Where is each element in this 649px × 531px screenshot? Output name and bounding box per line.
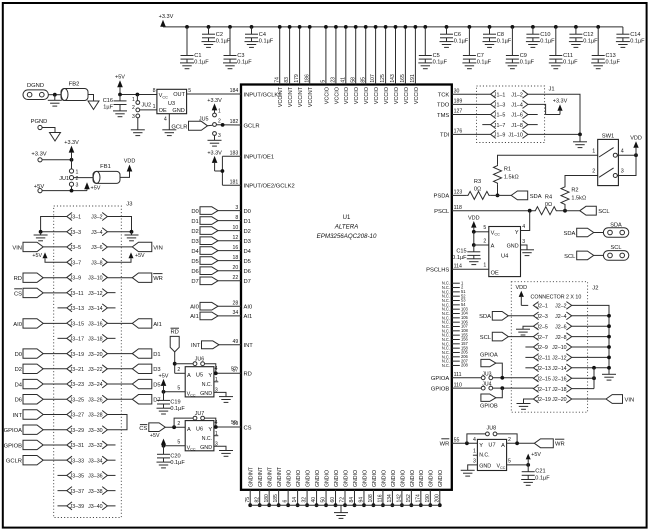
wire SW1 pin4 to VDD (617, 153, 638, 157)
svg-text:J3–34: J3–34 (88, 458, 102, 464)
pin 206 N.C. (442, 354, 469, 359)
svg-text:D7: D7 (191, 279, 198, 285)
svg-text:J2–5: J2–5 (536, 324, 548, 330)
test point +3.3V (31, 152, 46, 162)
svg-text:ALTERA: ALTERA (334, 224, 359, 231)
connector J2 row J2-11/J2-12 (533, 354, 571, 362)
svg-text:123: 123 (454, 190, 463, 196)
resistor R4 0ohm (534, 195, 558, 215)
svg-text:J3–5: J3–5 (70, 245, 82, 251)
signal tag D0 J3-19 (15, 349, 67, 358)
svg-text:J1–8: J1–8 (511, 123, 523, 129)
pin 184 INPUT/GCLK1 label (230, 88, 282, 98)
svg-text:2: 2 (483, 238, 486, 244)
svg-text:N.C.: N.C. (479, 452, 489, 458)
svg-text:12: 12 (233, 235, 239, 241)
svg-text:176: 176 (454, 129, 463, 135)
svg-text:J3: J3 (126, 202, 132, 208)
pin 189 TDO label (437, 99, 462, 109)
svg-text:72: 72 (340, 497, 346, 503)
signal tag SCL tp (564, 251, 594, 260)
svg-text:8: 8 (153, 88, 156, 94)
svg-text:40: 40 (311, 497, 317, 503)
svg-text:2: 2 (508, 437, 511, 443)
wire JU6 right (205, 364, 216, 374)
signal tag CS J3-11 (14, 288, 67, 297)
pin 55 WR label (440, 438, 460, 448)
pin VCCIO 23 (331, 25, 341, 104)
capacitor C6 0.1uF (440, 25, 469, 47)
node +3.3V arrow JU5 (207, 98, 222, 113)
signal tag GPIOB (480, 394, 498, 409)
svg-text:OUT: OUT (173, 92, 185, 98)
svg-text:0.1µF: 0.1µF (259, 38, 274, 44)
svg-text:AI0: AI0 (13, 322, 22, 328)
svg-text:VIN: VIN (12, 245, 22, 251)
signal tag SCL J2-7 (480, 332, 534, 341)
svg-text:D0: D0 (15, 352, 22, 358)
svg-text:INT: INT (191, 343, 201, 349)
pin 6 GNDIO (283, 470, 293, 507)
wire J1-7 stub (482, 124, 490, 126)
pin 152 GNDIO (406, 470, 416, 507)
svg-text:WR: WR (153, 276, 163, 282)
jumper JU5 (199, 109, 221, 139)
ground at J3-2/4 (125, 232, 139, 241)
svg-text:GPIOB: GPIOB (480, 403, 498, 409)
svg-text:VCCIO: VCCIO (384, 87, 390, 104)
connector J3 row J3-5/J3-6 (67, 243, 108, 251)
connector J1 row J1-5/J1-6 (491, 111, 528, 119)
connector J1 outline (477, 86, 545, 143)
svg-text:GNDIO: GNDIO (353, 470, 359, 487)
switch SW1 pole1 (599, 148, 617, 158)
svg-text:2: 2 (592, 169, 595, 175)
pin 34 AI1 label (233, 310, 253, 320)
wire J3-28 to J3-30 (107, 414, 127, 429)
svg-text:114: 114 (454, 264, 462, 270)
svg-text:R1: R1 (504, 167, 511, 173)
wire PGND (42, 128, 55, 133)
svg-text:C19: C19 (170, 399, 180, 405)
pin VCCINT 179 (294, 25, 304, 107)
pin 108 GNDIO (368, 470, 378, 507)
wire J2-2 down (572, 305, 609, 374)
svg-text:D2: D2 (244, 229, 251, 235)
svg-text:4: 4 (215, 366, 218, 372)
pin 51 N.C. (442, 289, 466, 294)
svg-text:PSDA: PSDA (434, 194, 450, 200)
svg-text:J3–25: J3–25 (70, 397, 84, 403)
pin VCCIO 5 (321, 25, 331, 104)
signal tag WR out (534, 439, 564, 448)
ground at C16 (113, 110, 127, 112)
connector J2 row J2-5/J2-6 (533, 322, 571, 330)
svg-text:D2: D2 (15, 367, 22, 373)
svg-text:J2–2: J2–2 (555, 304, 567, 310)
svg-text:186: 186 (304, 74, 310, 83)
svg-text:GNDIO: GNDIO (334, 470, 340, 487)
ground bus ground (334, 505, 348, 518)
svg-text:C12: C12 (583, 32, 593, 38)
svg-text:J1–6: J1–6 (511, 113, 523, 119)
signal tag GPIOA (480, 353, 498, 367)
svg-text:110: 110 (454, 382, 462, 388)
svg-text:VCCINT: VCCINT (288, 86, 294, 107)
wire R3 to SDA tag (491, 194, 511, 196)
capacitor C16 1uF (103, 95, 127, 111)
svg-text:3: 3 (76, 183, 79, 189)
jumper JU7 (193, 411, 204, 420)
svg-text:34: 34 (233, 310, 239, 316)
svg-text:111: 111 (454, 372, 462, 378)
wire DGND to FB2 (48, 93, 61, 97)
signal tag D2 (191, 227, 241, 235)
pin 14 GNDIO (292, 470, 302, 507)
svg-text:4: 4 (473, 437, 476, 443)
wire WR pin55 (452, 441, 478, 445)
svg-text:0.1µF: 0.1µF (520, 60, 535, 66)
svg-text:J3–14: J3–14 (88, 306, 102, 312)
node VDD arrow FB1 (124, 158, 136, 171)
svg-text:VCCINT: VCCINT (298, 86, 304, 107)
svg-text:0.1µF: 0.1µF (563, 60, 578, 66)
svg-text:J2–15: J2–15 (536, 376, 550, 382)
svg-text:0.1µF: 0.1µF (237, 60, 252, 66)
svg-text:AI1: AI1 (153, 322, 162, 328)
wire OE1/OE2 join (221, 156, 242, 185)
svg-text:TCK: TCK (438, 93, 450, 99)
svg-text:182: 182 (230, 119, 239, 125)
svg-text:8: 8 (235, 215, 238, 221)
node +5V arrow U7 (526, 452, 542, 465)
pin 185 GNDINT (273, 466, 283, 507)
svg-text:J2–4: J2–4 (555, 314, 567, 320)
svg-text:18: 18 (233, 255, 239, 261)
wire J3-36 stub (107, 474, 115, 476)
svg-text:GNDIO: GNDIO (400, 470, 406, 487)
buffer U7 (477, 439, 506, 470)
pin 118 PSCL label (434, 205, 462, 215)
svg-text:GPIOA: GPIOA (480, 353, 498, 359)
svg-text:D5: D5 (244, 259, 251, 265)
test point SDA (603, 222, 628, 237)
signal tag CS (139, 423, 165, 432)
svg-text:J1–7: J1–7 (494, 123, 506, 129)
svg-text:D0: D0 (191, 209, 198, 215)
svg-text:GND: GND (200, 445, 212, 451)
capacitor C10 0.1uF (526, 25, 555, 47)
wire U5 A (175, 372, 186, 374)
svg-text:3: 3 (621, 169, 624, 175)
svg-text:D1: D1 (191, 219, 198, 225)
node +3.3V supply (159, 14, 174, 27)
wire U6 Y to pin59 (214, 420, 241, 429)
svg-text:GNDIO: GNDIO (296, 470, 302, 487)
svg-text:C21: C21 (535, 468, 545, 474)
svg-text:20: 20 (233, 265, 239, 271)
svg-text:1.5kΩ: 1.5kΩ (504, 174, 519, 180)
svg-text:CS: CS (244, 425, 252, 431)
connector J3 row J3-35/J3-36 (67, 471, 108, 479)
signal tag INT J3-27 (13, 410, 67, 419)
svg-text:A: A (491, 243, 495, 249)
svg-text:GNDIO: GNDIO (429, 470, 435, 487)
ground at JU2 (131, 129, 145, 131)
svg-text:6: 6 (283, 500, 289, 503)
svg-text:OE: OE (159, 108, 167, 114)
connector J3 row J3-13/J3-14 (67, 304, 108, 312)
wire U5 Vcc (162, 390, 186, 394)
svg-text:83: 83 (284, 77, 290, 83)
wire J2-14 join (572, 366, 611, 370)
svg-text:SW1: SW1 (602, 134, 615, 140)
jumper JU1 (59, 169, 78, 189)
svg-text:R3: R3 (474, 179, 481, 185)
svg-text:C11: C11 (563, 53, 573, 59)
svg-text:60: 60 (330, 497, 336, 503)
svg-text:0.1µF: 0.1µF (606, 60, 621, 66)
pin 57 RD label (233, 368, 252, 378)
svg-text:174: 174 (415, 494, 421, 503)
svg-text:+3.3V: +3.3V (31, 152, 46, 158)
svg-text:C3: C3 (237, 53, 244, 59)
wire U4 A (474, 244, 489, 246)
svg-text:0.1µF: 0.1µF (194, 60, 209, 66)
wire U3 GND (168, 114, 170, 130)
signal tag GCLR J3-33 (6, 455, 67, 464)
buffer U6 (185, 421, 214, 452)
wire J2-19 ground (524, 399, 534, 404)
connector J2 outline (511, 282, 587, 413)
connector J3 row J3-25/J3-26 (67, 395, 108, 403)
signal tag D2 J3-21 (15, 364, 67, 373)
svg-text:+3.3V: +3.3V (159, 14, 174, 20)
svg-text:GNDIO: GNDIO (372, 470, 378, 487)
svg-text:3: 3 (218, 133, 221, 139)
svg-text:INPUT/OE1: INPUT/OE1 (244, 155, 275, 161)
node +3.3V arrow JU1 (64, 140, 79, 160)
pin VCCIO 107 (370, 25, 380, 104)
svg-text:5: 5 (177, 386, 180, 392)
wire +5V row (42, 189, 87, 193)
node +5V arrow U3 (115, 75, 125, 95)
svg-text:J2: J2 (592, 286, 598, 292)
svg-text:0.1µF: 0.1µF (477, 60, 492, 66)
svg-text:0.1µF: 0.1µF (497, 38, 512, 44)
svg-text:1: 1 (473, 448, 476, 454)
test point SCL (603, 245, 628, 260)
op-amp U1 label (317, 215, 377, 240)
svg-text:J3–26: J3–26 (88, 397, 102, 403)
signal tag RD J3-9 (14, 273, 67, 282)
svg-text:22: 22 (233, 275, 239, 281)
svg-text:GND: GND (172, 108, 184, 114)
wire JU1 pin2 to FB1 (74, 177, 93, 179)
ferrite bead FB2 (61, 81, 88, 100)
signal tag D5 J3-24 (107, 379, 160, 388)
capacitor C15 0.1uF (452, 245, 480, 261)
svg-text:GNDIO: GNDIO (410, 470, 416, 487)
pin VCCIO 41 (340, 25, 350, 104)
ground at U3 (162, 129, 176, 131)
svg-text:J3–23: J3–23 (70, 382, 84, 388)
signal tag INT (191, 341, 241, 349)
svg-text:U3: U3 (168, 101, 175, 107)
svg-text:GCLR: GCLR (244, 123, 260, 129)
wire J3-39 stub (58, 505, 67, 507)
wire J2-16 join (572, 368, 596, 389)
svg-text:D3: D3 (244, 239, 251, 245)
svg-text:JU1: JU1 (59, 176, 69, 182)
svg-text:JU2: JU2 (142, 103, 152, 109)
wire SDA tp (594, 232, 604, 234)
svg-text:VDD: VDD (630, 135, 642, 141)
ground at J2-19 (517, 403, 531, 405)
svg-text:0.1µF: 0.1µF (170, 406, 185, 412)
svg-text:VCCIO: VCCIO (414, 87, 420, 104)
svg-text:VDD: VDD (515, 285, 527, 291)
wire J3-13 stub (58, 307, 67, 309)
svg-text:TMS: TMS (437, 113, 449, 119)
signal tag GPIOB J3-31 (4, 440, 67, 449)
wire J3-4 to ground (107, 230, 133, 234)
svg-text:N.C.: N.C. (202, 436, 212, 442)
svg-text:INT: INT (13, 413, 23, 419)
pin 59 CS label (233, 421, 252, 431)
svg-text:GNDINT: GNDINT (277, 466, 283, 487)
svg-text:D4: D4 (15, 382, 23, 388)
svg-text:INPUT/OE2/GCLK2: INPUT/OE2/GCLK2 (244, 184, 295, 190)
svg-text:FB2: FB2 (69, 81, 80, 87)
svg-text:C1: C1 (194, 53, 201, 59)
pin 8 D1 label (235, 215, 251, 225)
svg-text:J3–3: J3–3 (70, 230, 82, 236)
svg-text:N.C.: N.C. (202, 382, 212, 388)
svg-text:85: 85 (360, 77, 366, 83)
pin 180 GNDINT (264, 466, 274, 507)
wire U5 NC stub (214, 381, 218, 383)
svg-text:J2–10: J2–10 (552, 345, 566, 351)
svg-text:J2–19: J2–19 (536, 397, 550, 403)
svg-text:J2–13: J2–13 (536, 366, 550, 372)
svg-text:AI0: AI0 (190, 304, 199, 310)
svg-text:C14: C14 (630, 32, 640, 38)
power ground FB2 (88, 101, 99, 110)
pin 110 GPIOB label (431, 382, 462, 392)
connector J3 row J3-21/J3-22 (67, 365, 108, 373)
jumper JU4 (481, 382, 492, 390)
svg-text:INPUT/GCLK1: INPUT/GCLK1 (244, 92, 282, 98)
connector J3 row J3-11/J3-12 (67, 289, 108, 297)
svg-text:WR: WR (555, 442, 565, 448)
pin 111 GPIOA label (431, 372, 462, 382)
pin VCCINT 83 (284, 25, 294, 107)
resistor R1 1.5k (494, 164, 519, 184)
svg-text:VCCIO: VCCIO (404, 87, 410, 104)
pin 123 PSDA label (434, 190, 463, 200)
svg-text:U4: U4 (501, 254, 509, 260)
pin 183 INPUT/OE1 label (230, 151, 274, 161)
svg-text:J3–38: J3–38 (88, 489, 102, 495)
svg-text:J3–37: J3–37 (70, 489, 84, 495)
svg-text:116: 116 (378, 494, 384, 502)
svg-text:J3–21: J3–21 (70, 367, 84, 373)
wire R4 to SCL tag (558, 209, 580, 213)
svg-text:143: 143 (390, 74, 396, 83)
svg-text:D4: D4 (191, 249, 199, 255)
pin 104 N.C. (442, 311, 469, 316)
svg-text:189: 189 (454, 99, 463, 105)
svg-text:J2–1: J2–1 (536, 304, 548, 310)
svg-text:C2: C2 (216, 32, 223, 38)
svg-text:84: 84 (349, 497, 355, 503)
wire TDO (452, 103, 491, 105)
svg-text:57: 57 (231, 366, 237, 372)
connector J2 row J2-13/J2-14 (533, 364, 571, 372)
svg-text:3: 3 (522, 239, 525, 245)
svg-text:U6: U6 (196, 427, 203, 433)
wire SW1 pin2 (565, 176, 598, 186)
svg-text:SDA: SDA (530, 194, 542, 200)
svg-text:94: 94 (359, 497, 365, 503)
svg-text:J3–2: J3–2 (91, 215, 103, 221)
pin 72 GNDIO (340, 470, 350, 507)
signal tag D7 J3-26 (107, 395, 160, 404)
svg-text:GNDIO: GNDIO (343, 470, 349, 487)
svg-text:200: 200 (434, 494, 440, 503)
svg-text:VCCINT: VCCINT (308, 86, 314, 107)
signal tag D4 J3-23 (15, 379, 67, 388)
wire CS to U6 A (165, 425, 185, 429)
svg-text:183: 183 (230, 151, 239, 157)
svg-text:GNDIO: GNDIO (391, 470, 397, 487)
svg-text:1µF: 1µF (103, 104, 113, 110)
svg-text:AI0: AI0 (244, 305, 253, 311)
capacitor C12 0.1uF (569, 25, 598, 47)
resistor R2 1.5k (561, 186, 586, 206)
jumper JU2 (132, 97, 151, 120)
svg-text:107: 107 (370, 74, 376, 83)
svg-text:J1: J1 (549, 87, 555, 93)
connector J2 row J2-15/J2-16 (533, 374, 571, 382)
connector J3 outline (54, 206, 122, 518)
svg-text:1: 1 (153, 104, 156, 110)
svg-text:RD: RD (14, 276, 22, 282)
signal tag GCLR (171, 121, 207, 130)
svg-text:41: 41 (340, 77, 346, 83)
connector J3 row J3-7/J3-8 (67, 258, 108, 266)
signal tag D6 J3-25 (15, 395, 67, 404)
wire J3-40 stub (107, 505, 115, 507)
svg-text:J3–6: J3–6 (91, 245, 103, 251)
svg-text:3: 3 (132, 114, 135, 120)
wire J2-20 to VIN (572, 398, 606, 400)
svg-text:GCLR: GCLR (171, 124, 187, 130)
wire J3-34 stub (107, 459, 115, 461)
wire U6 NC stub (214, 435, 218, 437)
wire JU6 left (175, 363, 193, 365)
pin VCCIO 85 (360, 25, 370, 104)
wire J2-10 join (572, 345, 611, 349)
connector J3 row J3-19/J3-20 (67, 350, 108, 358)
wire R1 to SDA node (496, 184, 500, 197)
svg-text:+3.3V: +3.3V (553, 99, 568, 105)
svg-text:D2: D2 (191, 229, 198, 235)
svg-text:49: 49 (233, 339, 239, 345)
wire J1-2 down (528, 94, 580, 134)
svg-text:VCCIO: VCCIO (334, 87, 340, 104)
